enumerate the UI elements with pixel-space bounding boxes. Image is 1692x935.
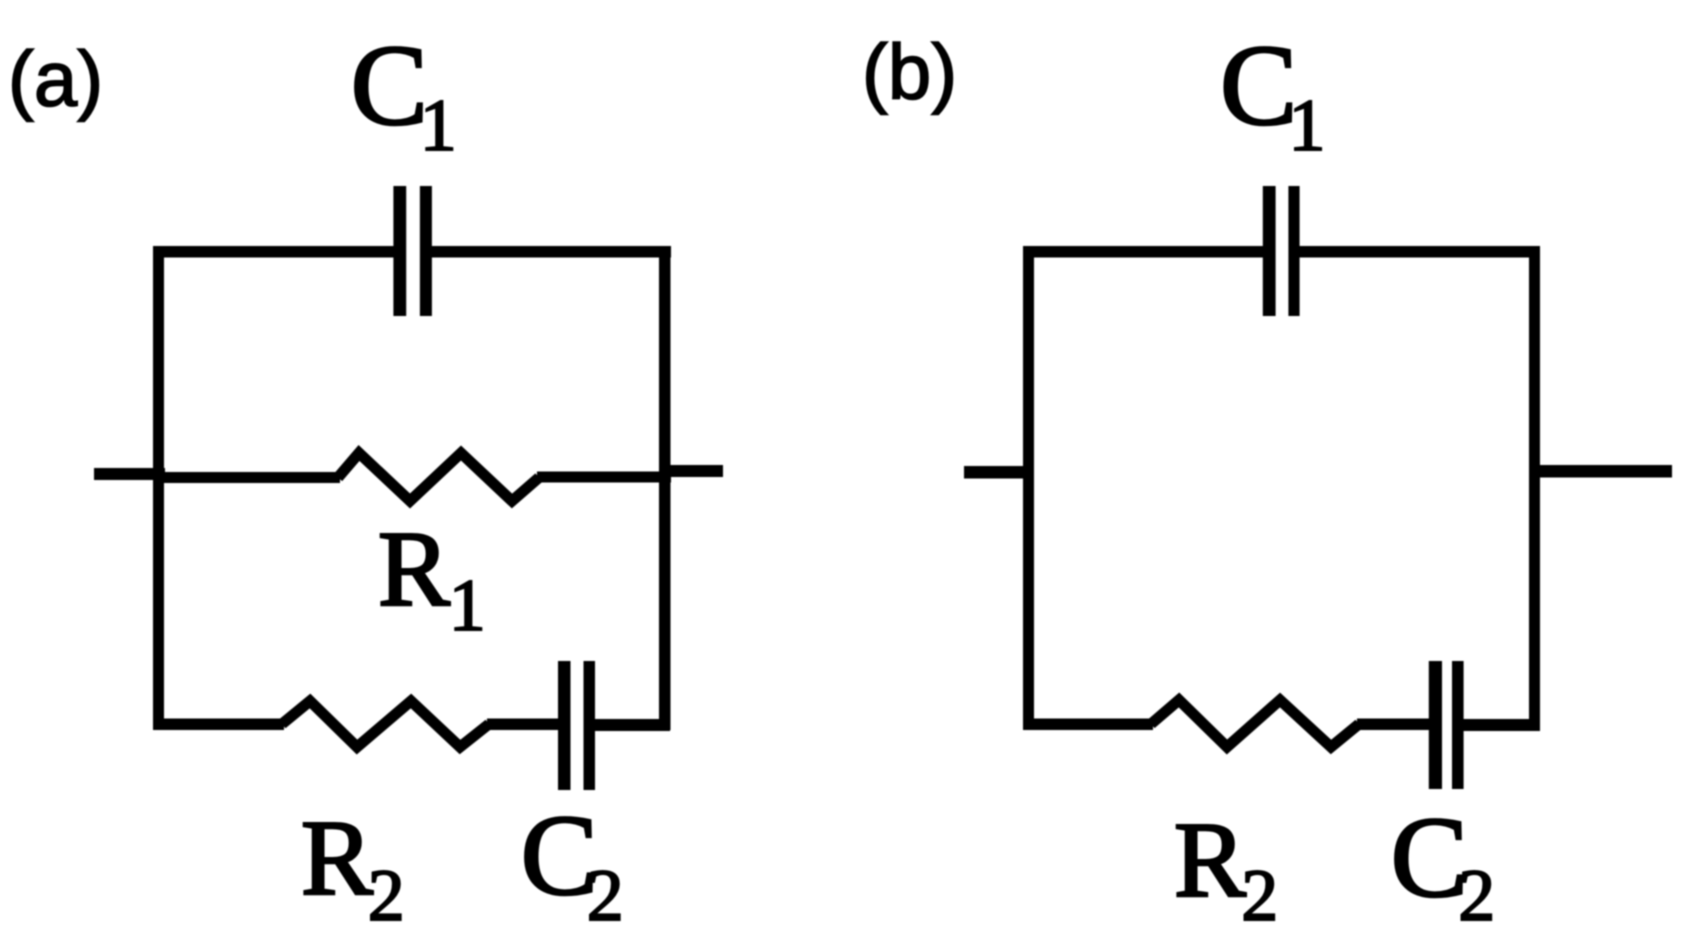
wire: middle-right segment (a): [537, 472, 671, 483]
wire: right terminal stub (a): [659, 465, 723, 477]
svg-text:2: 2: [587, 855, 624, 935]
label R2 (b): [1174, 801, 1278, 935]
wire: bottom-right segment (b): [1462, 719, 1540, 731]
resistor R2 (a): [282, 701, 489, 747]
svg-text:2: 2: [368, 855, 405, 935]
svg-text:C: C: [1391, 794, 1468, 922]
svg-text:1: 1: [449, 565, 486, 647]
label R2 (a): [301, 799, 405, 935]
svg-text:(a): (a): [8, 35, 103, 123]
capacitor C1 (b): [1263, 186, 1300, 316]
resistor R1 (a): [338, 453, 539, 501]
capacitor C1 (a): [393, 186, 432, 316]
label C1 (b): [1220, 22, 1326, 167]
capacitor C2 (b): [1429, 661, 1464, 789]
wire: bottom-left segment (a): [153, 719, 284, 731]
wire: R2-to-C2 segment (b): [1357, 719, 1430, 731]
wire: top-left segment (a): [153, 246, 394, 258]
label R1 (a): [378, 510, 486, 647]
wire: bottom-left segment (b): [1023, 719, 1153, 731]
label C2 (b): [1391, 794, 1496, 935]
wire: right vertical (b): [1529, 246, 1540, 730]
label C1 (a): [351, 22, 457, 167]
svg-text:1: 1: [420, 85, 457, 167]
svg-text:1: 1: [1289, 85, 1326, 167]
svg-text:C: C: [1220, 22, 1297, 150]
svg-text:R: R: [378, 510, 450, 629]
wire: left vertical (b): [1023, 246, 1034, 730]
svg-text:C: C: [351, 22, 428, 150]
svg-text:(b): (b): [862, 28, 957, 116]
wire: left terminal stub (b): [964, 466, 1034, 479]
wire: right terminal stub (b): [1529, 465, 1672, 478]
wire: left vertical (a): [153, 246, 164, 730]
label C2 (a): [521, 792, 624, 935]
svg-text:2: 2: [1458, 855, 1495, 935]
wire: top-left segment (b): [1023, 246, 1264, 258]
svg-text:R: R: [301, 799, 373, 918]
wire: bottom-right segment (a): [594, 719, 670, 731]
wire: top-right segment (a): [430, 246, 671, 258]
resistor R2 (b): [1151, 700, 1359, 747]
wire: R2-to-C2 segment (a): [487, 719, 559, 731]
wire: left terminal stub (a): [94, 468, 165, 480]
svg-text:2: 2: [1241, 855, 1278, 935]
wire: middle-left segment (a): [153, 472, 340, 483]
capacitor C2 (a): [558, 661, 595, 790]
wire: right vertical (a): [659, 246, 671, 730]
svg-text:R: R: [1174, 801, 1246, 920]
wire: top-right segment (b): [1298, 246, 1540, 258]
